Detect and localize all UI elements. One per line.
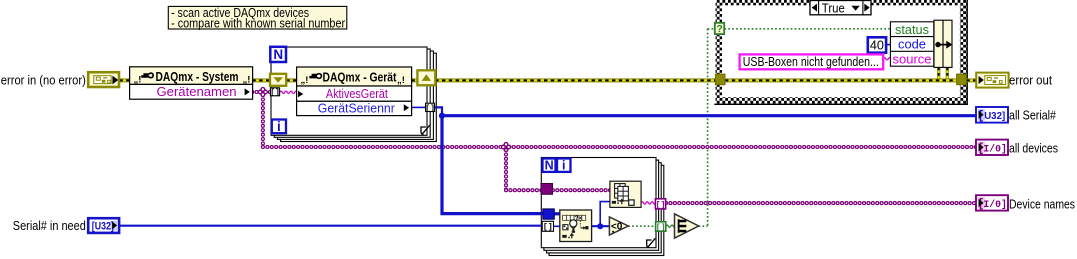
wire: error drops from bundle bars: [937, 67, 940, 78]
svg-text:I/0]: I/0]: [983, 143, 1007, 154]
for loop 2 frame (stacked echoes): [549, 165, 664, 255]
loop 2 tunnel: scalar U32 input: [542, 221, 553, 231]
svg-text:„!: „!: [134, 75, 142, 86]
wire: boolean green inside case to status: [724, 28, 890, 30]
svg-text:USB-Boxen nicht gefunden...: USB-Boxen nicht gefunden...: [743, 54, 879, 69]
wire: string-array chain to Device names indicator: [666, 201, 976, 205]
wire: U32 GeraetSeriennr to tunnel: [412, 106, 427, 108]
svg-text:error out: error out: [1009, 73, 1052, 88]
svg-text:AktivesGerät: AktivesGerät: [326, 86, 388, 101]
svg-text:„!: „!: [397, 75, 405, 86]
comment box: scan active DAQmx devices: [168, 6, 346, 29]
wire: Search output to Less-than-0: [592, 225, 610, 227]
svg-text:all devices: all devices: [1009, 140, 1058, 155]
loop 2 tunnel: boolean out (indexing): [656, 222, 666, 231]
svg-text:DAQmx - System: DAQmx - System: [156, 69, 239, 84]
loop 1 count terminal N: [270, 47, 286, 62]
svg-text:[]: []: [656, 200, 666, 210]
wire: U32-array down and into loop 2: [442, 116, 544, 214]
loop 2 tunnel: U32 array (no index): [543, 209, 555, 219]
pin: GeraetSeriennr output arrow: [404, 104, 409, 111]
for loop 1 frame (stacked echoes): [281, 53, 437, 141]
svg-text:error in (no error): error in (no error): [1, 72, 86, 87]
svg-text:i: i: [562, 159, 565, 173]
wire: boolean And output: [699, 225, 708, 227]
wire: boolean green vertical from And-node to case selector: [707, 29, 709, 226]
wire: 40 constant to code: [886, 44, 890, 46]
svg-text:all Serial#: all Serial#: [1009, 108, 1057, 123]
svg-text:source: source: [893, 51, 932, 66]
case selector label True: [810, 1, 871, 15]
svg-text:Gerätenamen: Gerätenamen: [157, 84, 237, 99]
control: Serial# in need [U32]: [88, 218, 119, 233]
svg-text:I/0]: I/0]: [983, 199, 1007, 210]
svg-text:i: i: [277, 119, 281, 134]
svg-text:N: N: [273, 47, 283, 62]
wire: string-array chain System output to loop tunnel: [252, 90, 270, 94]
wire: boolean-array wavy tunnel to And node: [666, 225, 676, 227]
svg-text:DAQmx - Gerät: DAQmx - Gerät: [323, 70, 397, 85]
loop 2 tunnel: string out (indexing): [655, 199, 665, 209]
wire: Serial# in need to loop 2 tunnel: [119, 225, 542, 227]
junction: U32-array split: [439, 113, 445, 119]
svg-text:N: N: [545, 159, 554, 173]
loop 1 input tunnel (auto-index strings): [270, 88, 279, 96]
for loop 2 page curl: [648, 238, 655, 247]
bundle-by-name node: status/code/source: [890, 22, 933, 66]
wire: error main run: [119, 78, 129, 82]
indicator: all devices [I/O]: [976, 140, 1008, 155]
wire: string wavy constant to source: [883, 58, 893, 60]
shift register right (error): [417, 70, 435, 85]
svg-text:U32]: U32]: [984, 111, 1005, 122]
string constant USB-Boxen nicht gefunden...: [740, 54, 884, 69]
function: Index Array: [610, 181, 641, 207]
indicator: Device names [I/O]: [976, 195, 1008, 210]
svg-text:status: status: [895, 22, 929, 37]
indicator: error out: [976, 73, 1008, 88]
bundle cluster bars: [934, 20, 952, 67]
loop 2 tunnel: string array (no index): [541, 184, 553, 195]
svg-text:[]: []: [270, 88, 280, 98]
pin: Geraetenamen output arrow: [245, 88, 250, 95]
loop 2 iteration terminal i: [557, 159, 571, 172]
svg-text:[U32]: [U32]: [92, 220, 114, 232]
svg-text:40: 40: [870, 38, 884, 52]
wire: string-array chain to all devices indicator: [263, 145, 976, 149]
junction: index split: [597, 223, 603, 229]
loop 2 count terminal N: [543, 159, 556, 172]
case tunnel: error out: [957, 74, 967, 85]
wire: index up to Index Array: [600, 202, 610, 227]
svg-text:Device names: Device names: [1009, 196, 1075, 211]
wire: boolean <0 output to indexing tunnel: [628, 225, 655, 227]
function: Search 1D Array: [560, 210, 592, 242]
svg-text:[]: []: [543, 222, 553, 232]
svg-text:„!: „!: [301, 75, 309, 86]
case tunnel: error in: [715, 74, 725, 85]
case selector terminal ?: [715, 23, 724, 34]
wire: string-array chain down into loop 2: [504, 150, 508, 190]
svg-text:code: code: [898, 37, 926, 52]
numeric constant 40: [868, 37, 886, 52]
loop 1 iteration terminal i: [272, 120, 286, 134]
indicator: all Serial# [U32]: [976, 107, 1008, 123]
junction: string-array split to loop 2: [502, 145, 506, 149]
svg-text:- compare with known serial nu: - compare with known serial number: [171, 15, 346, 30]
shift register left (error): [270, 74, 286, 86]
loop 1 output tunnel (auto-index U32): [426, 103, 435, 111]
for loop 1 page curl: [423, 125, 430, 134]
case structure border (checkered): [716, 0, 723, 104]
case structure shadow lines: [966, 0, 968, 105]
svg-text:„!: „!: [243, 75, 251, 86]
svg-text:?: ?: [716, 23, 722, 35]
pin: AktivesGeraet input arrow: [298, 91, 303, 98]
bundle flow dot-arrow: [935, 42, 940, 47]
wire: string-array chain inside loop 2 to Index Array: [553, 188, 610, 192]
wire: string wavy into AktivesGeraet: [280, 91, 300, 93]
function: Less Than 0?: [609, 217, 628, 235]
property node U1: DAQmx - System: [130, 67, 253, 85]
property node U2: DAQmx - Geraet: [297, 67, 412, 86]
junction: string-array split at system output: [258, 90, 262, 94]
wire: U32-array to all Serial# indicator: [442, 114, 976, 117]
svg-text:GerätSeriennr: GerätSeriennr: [318, 100, 396, 115]
wire: string wavy Index Array to tunnel: [641, 202, 656, 204]
svg-text:Serial# in need: Serial# in need: [13, 218, 86, 233]
svg-text:[]: []: [656, 222, 666, 232]
svg-text:True: True: [822, 0, 845, 15]
function: And Array Elements: [675, 214, 699, 238]
control: error in (no error): [88, 72, 119, 87]
svg-text:[]: []: [425, 103, 435, 113]
wire: U32-array tunnel out with corner: [435, 107, 442, 115]
wire: string-array chain down to all-devices run: [261, 95, 265, 147]
